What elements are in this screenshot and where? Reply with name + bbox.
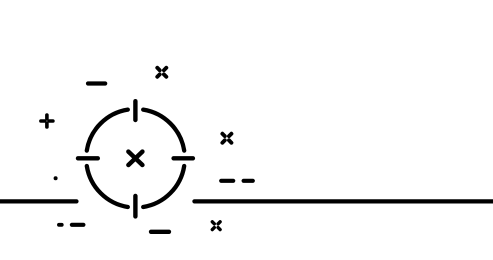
dash pair bottom-left a <box>59 223 62 227</box>
target left tick <box>78 156 98 160</box>
target top tick <box>133 101 137 120</box>
dot <box>54 176 58 180</box>
dash pair bottom-left b <box>72 223 84 227</box>
target bottom tick <box>133 196 137 217</box>
dash bottom-center <box>151 230 169 234</box>
sparkle x bottom <box>212 222 220 230</box>
long line left <box>0 199 77 203</box>
dash top-left <box>88 81 105 85</box>
sparkle x right <box>222 134 231 143</box>
target circle arcs <box>87 110 184 207</box>
dash pair right a <box>221 179 233 183</box>
target center X <box>128 152 142 165</box>
sparkle plus left <box>41 115 53 127</box>
long line right <box>194 199 493 203</box>
sparkle x upper <box>157 68 166 77</box>
dash pair right b <box>244 179 253 183</box>
target right tick <box>174 156 193 160</box>
